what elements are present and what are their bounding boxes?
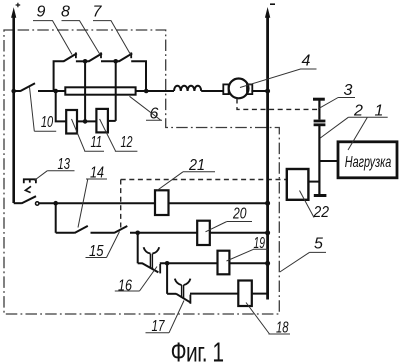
svg-text:11: 11 — [91, 134, 103, 151]
label 9 leader — [33, 21, 72, 55]
switch 7 fixed contact tick — [130, 52, 132, 58]
element 12 body — [96, 109, 108, 132]
wire: relay 19 to - bus — [229, 262, 267, 264]
wire: + bus corner to switch 13 — [14, 202, 22, 204]
wire: resistor tap vertical at x=85 — [84, 61, 86, 121]
wire: element 11 to element 12 — [77, 120, 96, 122]
shaft coupling 3 top bar — [313, 98, 325, 101]
wire: rail right segment down to main wire — [131, 61, 146, 91]
label 21 leader — [157, 172, 215, 191]
dashed box 5 left edge — [120, 180, 122, 229]
node: rail tap at x=115.7 — [113, 59, 118, 64]
motor 4 armature circle — [229, 79, 249, 99]
wire: between switch 14 and switch 15 — [91, 232, 115, 234]
label 2 leader — [320, 117, 367, 138]
svg-text:20: 20 — [232, 206, 246, 223]
switch 14 blade — [75, 226, 88, 233]
label 18 leader — [246, 303, 290, 335]
positive bus arrowhead — [11, 7, 16, 18]
svg-text:22: 22 — [313, 204, 329, 221]
node: row B on - bus — [265, 230, 270, 235]
shaft end bar — [314, 194, 327, 197]
node: rail tap at x=85 — [83, 59, 88, 64]
wire: row B down to row C — [137, 233, 139, 263]
svg-text:10: 10 — [41, 114, 53, 131]
label 12 leader — [100, 119, 138, 151]
negative bus arrowhead — [265, 7, 270, 18]
motor 4 right brush — [247, 84, 252, 94]
relay 19 body — [218, 251, 230, 275]
label 20 leader — [206, 222, 253, 232]
wire: resistor 6 right end to inductor — [136, 90, 174, 92]
sensor 16 contact tick — [159, 264, 161, 273]
node: row B junction — [135, 231, 140, 236]
label 19 leader — [227, 249, 269, 261]
dash-dot enclosure frame — [4, 30, 279, 314]
switch 8 fixed contact tick — [100, 52, 102, 58]
svg-text:8: 8 — [61, 4, 70, 21]
minus sign — [270, 3, 275, 5]
label 1 leader — [348, 117, 388, 150]
wire: row C down to row D — [166, 263, 168, 294]
shaft upper stem — [318, 99, 320, 119]
label 8 leader — [62, 21, 101, 55]
node: junction below resistor — [83, 119, 88, 124]
wire: left end down to element 11 — [56, 91, 66, 121]
wire: row A down to row B — [55, 203, 57, 233]
switch 9 blade — [63, 53, 77, 61]
node: row A junction — [53, 201, 58, 206]
motor 4 left brush — [223, 84, 228, 94]
label 14 leader — [78, 179, 107, 228]
load box 1 — [338, 142, 397, 178]
svg-text:12: 12 — [121, 134, 133, 151]
label 13 leader — [34, 171, 74, 181]
sensor 17 fork stem — [182, 285, 184, 299]
label 15 leader — [86, 232, 120, 258]
svg-text:16: 16 — [118, 278, 132, 295]
wire: box 22 to shaft — [308, 181, 319, 183]
switch 13 contact circle — [36, 202, 39, 205]
switch 10 blade — [20, 83, 35, 91]
element 11 body — [66, 110, 77, 134]
wire: relay 18 to - bus — [252, 293, 268, 295]
wire: element 12 to tap x=115.7 — [108, 120, 116, 122]
switch 13 blade — [22, 196, 37, 203]
wire: motor to - bus — [251, 90, 267, 92]
coupling 2 upper bar — [314, 120, 326, 123]
node: resistor right end — [144, 89, 149, 94]
wire: left branch vertical to switch rail — [54, 61, 64, 91]
sensor 17 contact tick — [189, 295, 191, 304]
label 7 leader — [93, 21, 131, 55]
label 5 leader — [280, 252, 326, 272]
positive supply bus — [12, 14, 15, 203]
node: row A on - bus — [265, 201, 270, 206]
svg-text:4: 4 — [302, 53, 311, 70]
label 10 leader — [30, 87, 57, 131]
sensor 16 fork stem — [150, 254, 152, 269]
label 22 leader — [300, 191, 315, 218]
sensor 17 blade — [176, 294, 191, 303]
wire: switch 13 to relay 21 — [39, 202, 155, 204]
resistor 6 body — [65, 87, 135, 94]
switch 7 blade — [119, 53, 133, 61]
node: motor junction on - bus — [265, 89, 270, 94]
wire: relay 20 to - bus — [210, 232, 268, 234]
wire: row D stub — [167, 293, 176, 295]
svg-text:Фиг. 1: Фиг. 1 — [171, 338, 225, 364]
sensor 17 fork prongs — [175, 279, 191, 285]
node: resistor left tap — [53, 89, 58, 94]
relay 21 body — [155, 190, 169, 215]
label 3 leader — [318, 98, 355, 109]
svg-text:9: 9 — [37, 4, 46, 21]
relay 20 body — [197, 221, 210, 245]
label 17 leader — [146, 301, 185, 333]
negative supply bus — [266, 14, 269, 300]
svg-text:3: 3 — [344, 82, 353, 99]
wire: row B left segment — [56, 232, 75, 234]
wire: switch 15 to relay 20 — [130, 232, 197, 234]
box 22 (shaft sensor) — [287, 169, 309, 200]
node: junction on + bus — [11, 89, 16, 94]
element 13 actuator bracket — [24, 179, 36, 183]
element 13 actuator arrow — [25, 186, 31, 192]
relay 18 body — [238, 281, 252, 307]
wire: switch 10 to resistor 6 left end — [38, 90, 65, 92]
inductor winding — [174, 86, 201, 91]
wire: shaft to load box 1 — [319, 160, 338, 162]
dashed mechanical link motor to shaft — [237, 99, 318, 110]
sensor 16 fork prongs — [144, 247, 160, 253]
wire: row C stub — [138, 262, 143, 264]
label 16 leader — [115, 267, 157, 292]
svg-text:7: 7 — [93, 4, 103, 21]
node: row C junction — [165, 261, 170, 266]
svg-text:5: 5 — [314, 235, 323, 252]
wire: sensor 16 to relay 19 — [160, 262, 218, 264]
dashed box 5 top edge (link to box 22) — [121, 179, 287, 181]
wire: inductor to motor — [201, 90, 223, 92]
switch 15 blade — [114, 226, 127, 233]
wire: sensor 17 to relay 18 — [190, 293, 238, 295]
label 6 leader — [130, 96, 163, 120]
shaft lower stem — [318, 125, 320, 196]
wire: relay 21 to - bus — [169, 202, 268, 204]
coupling 2 lower bar — [314, 123, 326, 126]
switch 9 fixed contact tick — [75, 52, 77, 58]
wire: tap from + bus at y=91 — [14, 90, 21, 92]
node: row C on - bus — [265, 261, 270, 266]
svg-text:Нагрузка: Нагрузка — [345, 154, 392, 171]
label 4 leader — [240, 69, 317, 88]
wire: resistor tap vertical at x=115.7 — [115, 61, 117, 121]
svg-text:21: 21 — [188, 157, 205, 174]
svg-text:17: 17 — [152, 318, 166, 335]
wire: rail between switch 9 and switch 8 — [76, 60, 89, 62]
wire: rail between switch 8 and switch 7 — [101, 60, 119, 62]
plus sign — [16, 3, 21, 8]
label 11 leader — [72, 119, 105, 151]
sensor 16 blade — [142, 263, 158, 272]
switch 8 blade — [89, 53, 103, 61]
